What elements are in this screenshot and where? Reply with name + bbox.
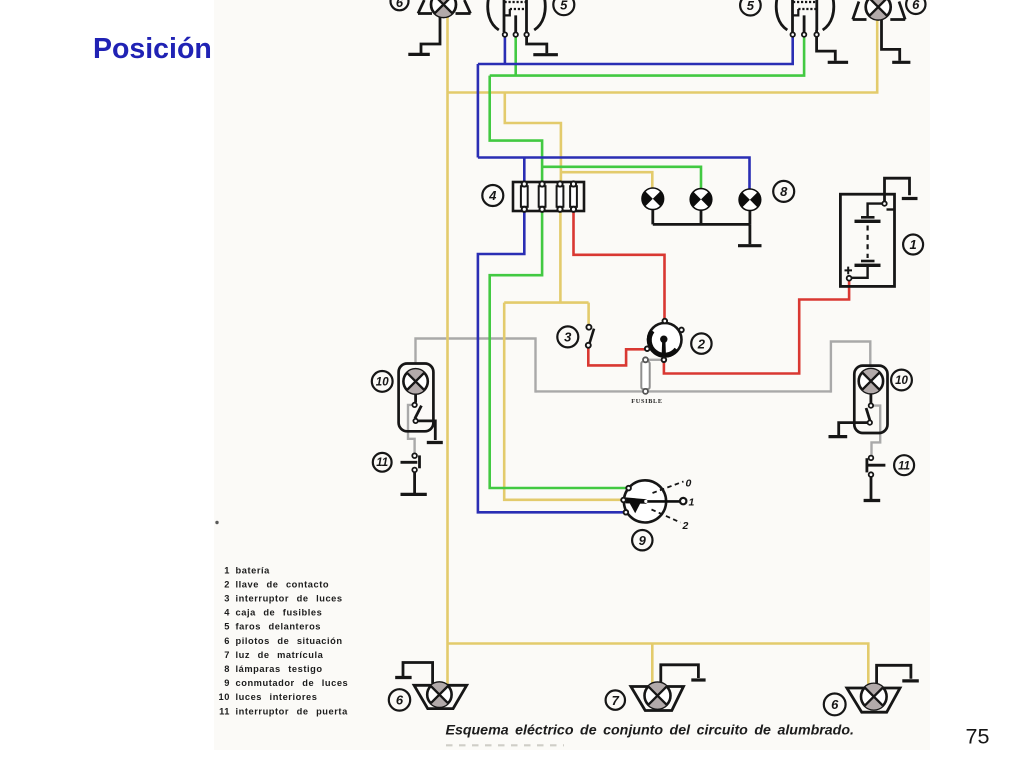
svg-text:caja de fusibles: caja de fusibles bbox=[236, 608, 323, 618]
svg-text:3: 3 bbox=[564, 330, 572, 345]
svg-text:8: 8 bbox=[780, 184, 788, 199]
svg-text:3: 3 bbox=[224, 594, 230, 604]
svg-text:11: 11 bbox=[376, 457, 388, 469]
svg-text:4: 4 bbox=[224, 608, 230, 618]
svg-text:11: 11 bbox=[898, 460, 910, 472]
svg-text:1: 1 bbox=[689, 497, 695, 509]
svg-text:10: 10 bbox=[219, 692, 230, 702]
svg-text:2: 2 bbox=[682, 520, 689, 532]
svg-text:6: 6 bbox=[224, 636, 230, 646]
svg-text:llave de contacto: llave de contacto bbox=[236, 579, 330, 589]
svg-text:7: 7 bbox=[612, 693, 620, 708]
svg-text:6: 6 bbox=[396, 693, 404, 708]
svg-text:6: 6 bbox=[831, 697, 839, 712]
svg-text:faros delanteros: faros delanteros bbox=[236, 622, 322, 632]
svg-text:2: 2 bbox=[224, 579, 230, 589]
svg-text:75: 75 bbox=[966, 725, 990, 749]
svg-text:luz de matrícula: luz de matrícula bbox=[236, 650, 324, 660]
svg-text:8: 8 bbox=[224, 664, 230, 674]
svg-text:luces interiores: luces interiores bbox=[236, 692, 318, 702]
svg-text:6: 6 bbox=[396, 0, 404, 10]
svg-text:7: 7 bbox=[224, 650, 230, 660]
svg-text:interruptor de puerta: interruptor de puerta bbox=[236, 706, 349, 716]
svg-text:1: 1 bbox=[224, 565, 230, 575]
svg-text:interruptor de luces: interruptor de luces bbox=[236, 594, 343, 604]
svg-text:pilotos de situación: pilotos de situación bbox=[236, 636, 343, 646]
svg-text:FUSIBLE: FUSIBLE bbox=[631, 398, 662, 405]
svg-text:5: 5 bbox=[560, 0, 568, 12]
svg-text:5: 5 bbox=[747, 0, 755, 13]
svg-text:Posición: Posición bbox=[93, 33, 212, 65]
svg-text:2: 2 bbox=[697, 336, 706, 351]
svg-text:9: 9 bbox=[639, 533, 647, 548]
svg-text:Esquema eléctrico de conjunto: Esquema eléctrico de conjunto del circui… bbox=[446, 723, 854, 739]
svg-text:conmutador de luces: conmutador de luces bbox=[236, 678, 349, 688]
svg-text:9: 9 bbox=[224, 678, 230, 688]
svg-text:1: 1 bbox=[909, 237, 916, 252]
svg-text:4: 4 bbox=[488, 188, 497, 203]
svg-text:10: 10 bbox=[376, 377, 389, 389]
svg-text:6: 6 bbox=[912, 0, 920, 12]
svg-text:11: 11 bbox=[219, 706, 230, 716]
svg-text:5: 5 bbox=[224, 622, 230, 632]
svg-text:10: 10 bbox=[895, 375, 908, 387]
svg-text:batería: batería bbox=[236, 565, 271, 575]
svg-text:lámparas testigo: lámparas testigo bbox=[236, 664, 323, 674]
svg-text:0: 0 bbox=[686, 478, 692, 490]
